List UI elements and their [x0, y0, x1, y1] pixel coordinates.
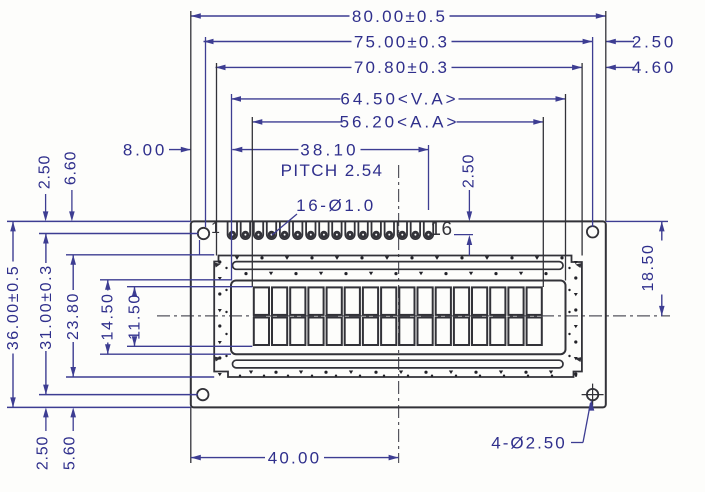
extension stub left hole to bezel top — [199, 240, 201, 255]
extension AA top to left — [127, 286, 252, 288]
svg-text:1: 1 — [211, 220, 220, 237]
dimension 64.50 viewing area — [231, 90, 566, 109]
dimension 8.00 edge to pin1 — [123, 140, 191, 159]
svg-text:64.50<V.A>: 64.50<V.A> — [340, 90, 458, 109]
svg-text:16-Ø1.0: 16-Ø1.0 — [296, 196, 376, 215]
label 6.60 top left (pcb top to bezel top) — [63, 151, 80, 222]
svg-text:56.20<A.A>: 56.20<A.A> — [340, 113, 460, 132]
svg-text:70.80±0.3: 70.80±0.3 — [354, 58, 449, 77]
extension line window left / pin1 up — [231, 94, 233, 281]
right label 4.60 (edge to bezel) — [606, 58, 676, 77]
bezel tab tick top-right — [575, 263, 582, 268]
dimension 31.00±0.3 hole vertical spacing — [38, 234, 55, 395]
label 2.50 top left (pcb top to hole center) — [37, 155, 54, 222]
extension line PCB left edge up — [190, 11, 192, 221]
extension line left hole center up — [205, 37, 207, 227]
svg-text:2.50: 2.50 — [35, 436, 52, 470]
dimension 75.00±0.3 hole spacing — [204, 32, 593, 51]
extension pcb top to right — [606, 220, 668, 222]
svg-text:4.60: 4.60 — [632, 58, 676, 77]
svg-text:5.60: 5.60 — [61, 436, 78, 470]
dimension 23.80 bezel height — [65, 255, 82, 377]
LCD metal bezel outline with stepped corners — [214, 256, 582, 378]
bezel tab tick bottom-left — [214, 357, 221, 362]
right label 2.50 (edge to hole) — [606, 32, 676, 51]
svg-text:23.80: 23.80 — [65, 292, 82, 340]
svg-text:38.10: 38.10 — [300, 140, 359, 159]
svg-text:18.50: 18.50 — [640, 243, 657, 291]
horizontal display centerline — [157, 315, 670, 317]
vertical display centerline — [398, 165, 400, 463]
label 5.60 bottom left (bezel bottom to pcb bottom) — [61, 407, 78, 470]
extension hole center to left — [39, 233, 198, 235]
extension line bezel right up — [581, 63, 583, 256]
extension pcb top to left — [7, 220, 191, 222]
dimension 56.20 active area — [252, 113, 543, 132]
dimension 70.80±0.3 bezel width — [216, 58, 583, 77]
svg-text:36.00±0.5: 36.00±0.5 — [5, 265, 22, 350]
label 4-Ø2.50 with leader to bottom-right hole — [491, 400, 594, 453]
bezel bottom slot — [233, 360, 564, 368]
svg-text:11.50: 11.50 — [126, 293, 143, 340]
dimension 36.00±0.5 overall height — [5, 221, 22, 407]
extension hole bottom center to left — [39, 394, 198, 396]
extension line AA right up — [542, 117, 544, 287]
mounting hole top-right — [587, 226, 598, 237]
mounting hole bottom-left — [197, 389, 208, 400]
dimension 80.00±0.5 overall width — [191, 7, 606, 26]
bezel tab tick top-left — [214, 263, 221, 268]
16 connector pins — [228, 221, 434, 239]
svg-text:40.00: 40.00 — [268, 448, 322, 467]
label 16-Ø1.0 with leader to pin — [272, 196, 376, 235]
bezel top slot — [233, 262, 564, 270]
svg-text:31.00±0.3: 31.00±0.3 — [38, 264, 55, 349]
extension line PCB right edge up — [605, 11, 607, 221]
extension line bezel left up — [216, 63, 218, 256]
extension bezel top to left — [66, 254, 214, 256]
svg-text:2.50: 2.50 — [632, 32, 676, 51]
svg-text:80.00±0.5: 80.00±0.5 — [352, 7, 447, 26]
extension window bottom to left — [100, 353, 231, 355]
svg-text:PITCH 2.54: PITCH 2.54 — [281, 161, 384, 180]
svg-text:16: 16 — [430, 219, 452, 240]
16x2 character cell matrix — [254, 287, 542, 345]
bezel hatch dots — [218, 256, 578, 377]
mounting hole top-left — [198, 228, 209, 239]
mounting hole bottom-right with crosshair — [582, 384, 604, 406]
display window — [231, 281, 566, 355]
dimension 40.00 (left edge to centerline) — [191, 448, 399, 467]
dimension 11.50 active area height — [126, 287, 143, 347]
dimension 2.50 top right (pcb top to pin line) — [454, 154, 478, 256]
svg-text:75.00±0.3: 75.00±0.3 — [354, 32, 449, 51]
label 2.50 bottom left (hole center to pcb bottom) — [35, 407, 52, 470]
bezel tab tick bottom-right — [575, 357, 582, 362]
PCB outline — [191, 221, 606, 407]
extension window top to left — [100, 279, 231, 281]
extension line right hole center up — [592, 37, 594, 227]
dimension 18.50 right (top to centerline) — [640, 221, 665, 316]
svg-text:4-Ø2.50: 4-Ø2.50 — [491, 434, 566, 453]
dimension 38.10 pin row span — [232, 140, 428, 159]
svg-text:14.50: 14.50 — [100, 292, 117, 340]
extension pcb bottom to left — [7, 406, 191, 408]
svg-text:6.60: 6.60 — [63, 151, 80, 185]
extension bezel bottom to left — [66, 376, 214, 378]
svg-text:8.00: 8.00 — [123, 140, 167, 159]
dimension 14.50 window height — [100, 280, 117, 354]
extension AA bottom to left — [127, 345, 252, 347]
extension line pin16 up — [428, 145, 430, 210]
svg-text:2.50: 2.50 — [37, 155, 54, 189]
svg-text:2.50: 2.50 — [461, 154, 478, 188]
extension line AA left up — [251, 117, 253, 287]
extension pcb left edge down — [190, 407, 192, 463]
extension line window right up — [565, 94, 567, 281]
